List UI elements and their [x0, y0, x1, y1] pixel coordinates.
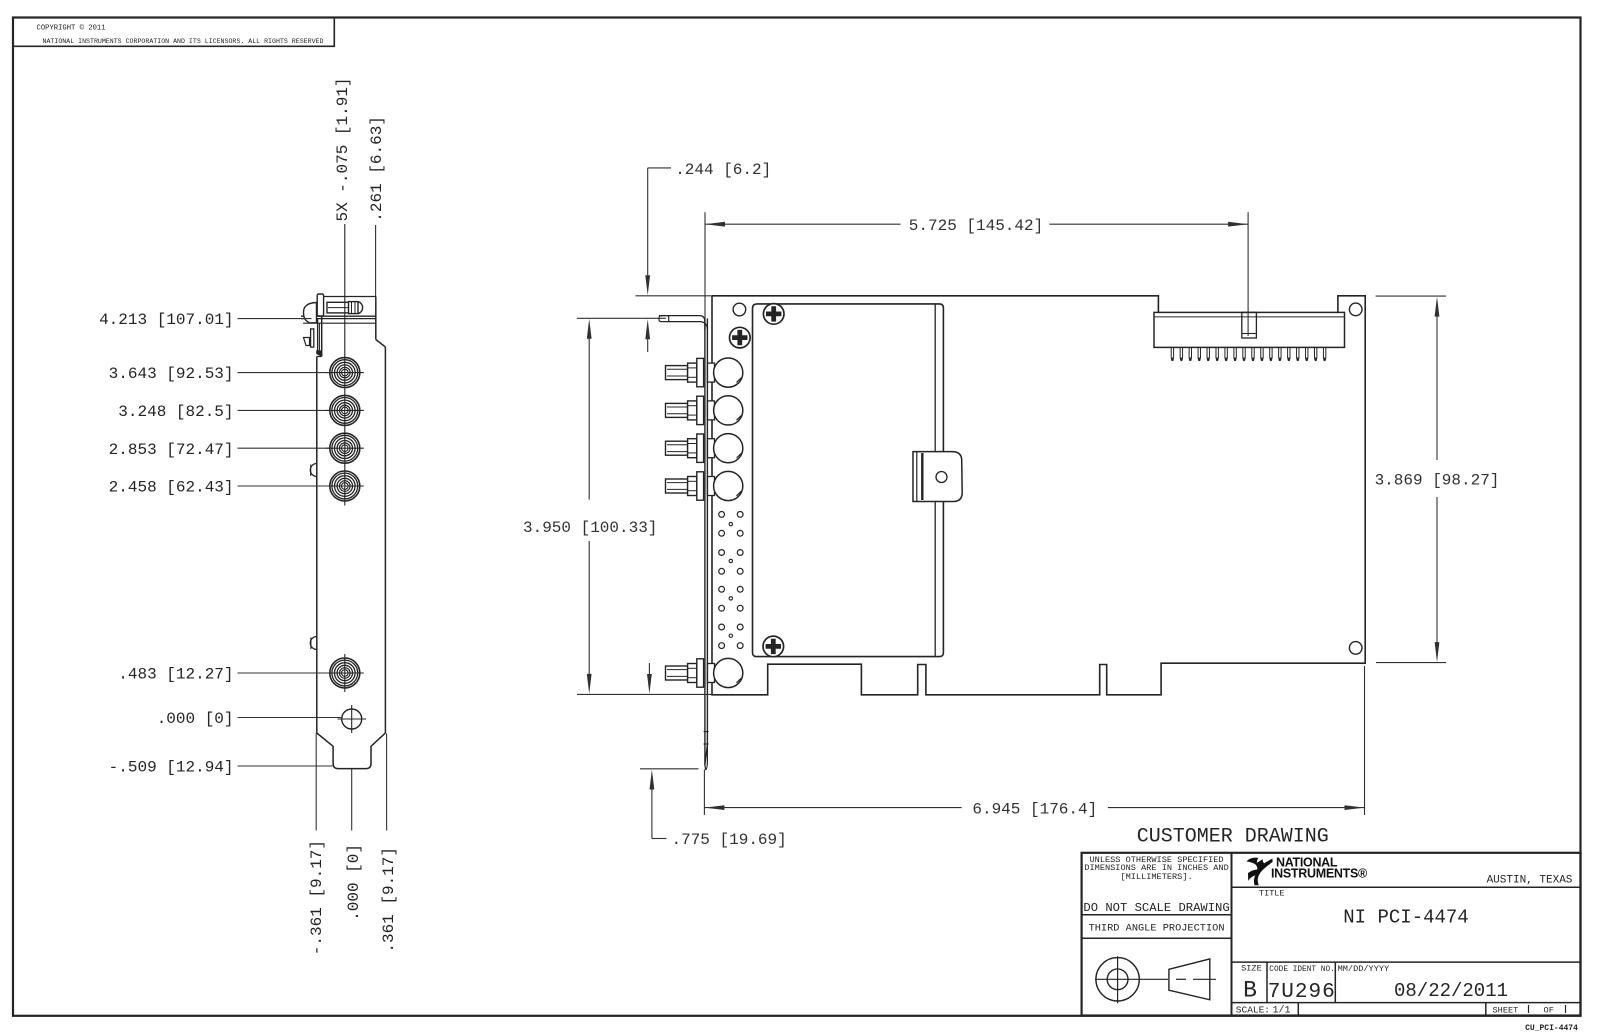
svg-text:INSTRUMENTS®: INSTRUMENTS®	[1271, 867, 1368, 881]
svg-text:CUSTOMER DRAWING: CUSTOMER DRAWING	[1137, 826, 1329, 849]
svg-text:-.361 [9.17]: -.361 [9.17]	[308, 840, 326, 955]
svg-text:2.458 [62.43]: 2.458 [62.43]	[109, 479, 234, 497]
svg-text:3.869 [98.27]: 3.869 [98.27]	[1375, 472, 1500, 490]
svg-text:DO NOT SCALE DRAWING: DO NOT SCALE DRAWING	[1083, 901, 1229, 915]
svg-text:.244 [6.2]: .244 [6.2]	[675, 161, 771, 179]
svg-text:.361 [9.17]: .361 [9.17]	[380, 847, 398, 953]
svg-text:SIZE: SIZE	[1241, 964, 1262, 974]
svg-text:5X -.075 [1.91]: 5X -.075 [1.91]	[334, 77, 352, 221]
svg-text:.261 [6.63]: .261 [6.63]	[368, 116, 386, 222]
svg-text:THIRD ANGLE PROJECTION: THIRD ANGLE PROJECTION	[1089, 923, 1225, 935]
svg-text:2.853 [72.47]: 2.853 [72.47]	[109, 441, 234, 459]
svg-text:3.950 [100.33]: 3.950 [100.33]	[523, 519, 657, 537]
svg-text:TITLE: TITLE	[1259, 889, 1285, 899]
svg-text:NATIONAL INSTRUMENTS CORPORATI: NATIONAL INSTRUMENTS CORPORATION AND ITS…	[43, 38, 324, 45]
svg-text:7U296: 7U296	[1268, 981, 1336, 1004]
svg-text:.000 [0]: .000 [0]	[345, 844, 363, 921]
svg-text:CODE IDENT NO.: CODE IDENT NO.	[1269, 966, 1335, 974]
svg-text:3.248 [82.5]: 3.248 [82.5]	[118, 403, 233, 421]
svg-text:3.643 [92.53]: 3.643 [92.53]	[109, 365, 234, 383]
svg-text:5.725 [145.42]: 5.725 [145.42]	[909, 217, 1043, 235]
svg-text:-.509 [12.94]: -.509 [12.94]	[109, 759, 234, 777]
svg-text:SHEET: SHEET	[1493, 1005, 1519, 1015]
svg-text:[MILLIMETERS].: [MILLIMETERS].	[1120, 872, 1192, 882]
svg-text:4.213 [107.01]: 4.213 [107.01]	[99, 311, 233, 329]
svg-text:08/22/2011: 08/22/2011	[1394, 980, 1508, 1002]
svg-text:.000 [0]: .000 [0]	[157, 710, 234, 728]
svg-text:COPYRIGHT © 2011: COPYRIGHT © 2011	[37, 24, 106, 33]
svg-text:SCALE:: SCALE:	[1236, 1005, 1270, 1016]
svg-text:6.945 [176.4]: 6.945 [176.4]	[972, 800, 1097, 818]
svg-text:CU_PCI-4474: CU_PCI-4474	[1525, 1024, 1578, 1033]
svg-text:MM/DD/YYYY: MM/DD/YYYY	[1338, 964, 1390, 974]
svg-text:OF: OF	[1544, 1005, 1554, 1015]
svg-text:.483 [12.27]: .483 [12.27]	[118, 666, 233, 684]
svg-text:1/1: 1/1	[1272, 1005, 1290, 1017]
svg-text:B: B	[1243, 978, 1257, 1004]
svg-text:NI PCI-4474: NI PCI-4474	[1343, 906, 1468, 928]
svg-text:AUSTIN, TEXAS: AUSTIN, TEXAS	[1487, 875, 1573, 887]
svg-text:.775 [19.69]: .775 [19.69]	[672, 831, 787, 849]
